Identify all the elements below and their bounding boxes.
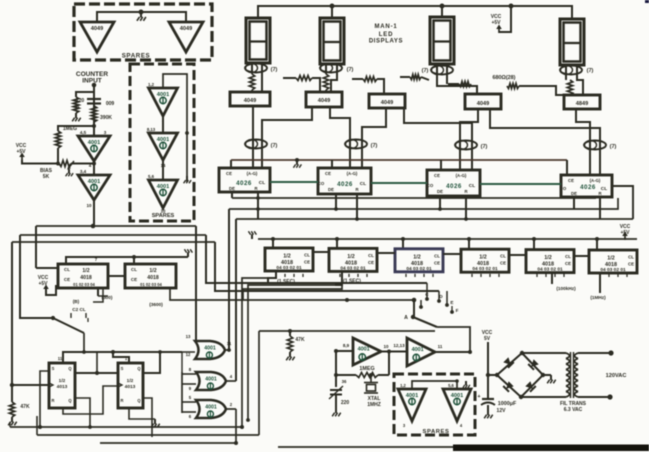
wire bus left verticals [12, 226, 53, 385]
wire VCC top bus [258, 6, 572, 19]
label 120VAC [606, 373, 627, 379]
svg-text:MAN-1: MAN-1 [375, 24, 398, 30]
svg-text:01 02 03 04: 01 02 03 04 [73, 282, 95, 287]
pin 4 label [89, 163, 92, 168]
display DS1 MAN-1 [246, 18, 270, 63]
wire tap routing 3 [243, 285, 342, 300]
junction osc fb [334, 349, 338, 377]
svg-text:R: R [121, 398, 124, 403]
terminal top [608, 350, 613, 355]
wire seg r5 [519, 86, 564, 95]
svg-text:CE: CE [434, 173, 440, 178]
resistor 1MEG osc [356, 373, 378, 378]
label VCC 5V (psu) [482, 330, 493, 342]
svg-text:47K: 47K [20, 404, 30, 410]
divider 4018 #4 [461, 249, 509, 272]
svg-text:CL: CL [434, 253, 440, 258]
pin 4,5 label [80, 130, 87, 135]
wire 4026 3-4 CL link [480, 183, 561, 185]
svg-text:(A-G): (A-G) [247, 171, 258, 176]
svg-text:CL: CL [601, 186, 607, 192]
svg-text:1/2: 1/2 [347, 254, 355, 260]
junction top bus a [330, 4, 335, 9]
svg-text:4001: 4001 [412, 347, 424, 353]
wire 4049C to bundle2 [362, 108, 386, 168]
svg-text:LED: LED [379, 32, 393, 38]
svg-text:DE: DE [229, 186, 235, 191]
wire psu to bridge [488, 374, 497, 376]
wire left4018 left pin [36, 267, 58, 269]
wire U1a to U1b [93, 161, 95, 175]
svg-text:(7): (7) [271, 143, 278, 149]
gate 4001 U1b [78, 175, 110, 200]
wire center vert c [215, 242, 439, 291]
svg-text:(7): (7) [481, 144, 488, 150]
gate 4001 spare D [149, 133, 178, 160]
wire 4013 top feeds [63, 352, 182, 363]
wire left4018 top bus [66, 257, 188, 264]
svg-text:CE: CE [434, 260, 440, 265]
junction top bus c [509, 4, 514, 9]
wire 4018 links [313, 252, 589, 256]
svg-text:10: 10 [383, 344, 389, 349]
wire gate2 inputs [182, 374, 196, 384]
label .009 [106, 101, 115, 107]
wire osc link [381, 351, 407, 353]
svg-text:(A-G): (A-G) [590, 178, 601, 183]
svg-text:4049: 4049 [244, 98, 256, 104]
svg-text:S: S [52, 366, 55, 371]
pin 8 label [189, 367, 192, 372]
resistor seg r1 [296, 76, 312, 81]
wire bias to gate node [71, 163, 94, 165]
flipflop 4013 B [118, 363, 143, 408]
svg-text:009: 009 [106, 101, 115, 107]
svg-text:DE: DE [571, 191, 577, 196]
junction bridge corners [495, 351, 545, 399]
label (7) DS2 [347, 67, 354, 73]
junction ffA D [38, 425, 42, 429]
svg-text:1/2: 1/2 [413, 254, 421, 260]
wire 4049A down [253, 106, 312, 168]
svg-text:CL: CL [259, 180, 265, 186]
resistor 47K left [9, 402, 14, 417]
wire bridge to xfmr top [522, 352, 566, 354]
svg-text:120VAC: 120VAC [606, 373, 627, 379]
junction ffB right [158, 350, 162, 354]
wire 4018 top bus [258, 238, 637, 240]
svg-text:(3600): (3600) [149, 302, 163, 307]
label SPARES (bottom) [422, 429, 449, 435]
wire spare D out [162, 160, 164, 180]
ground (ff) [151, 419, 160, 427]
label (7) c2 [371, 143, 378, 149]
svg-text:CO: CO [318, 181, 325, 186]
wire 4049B down [330, 107, 350, 168]
divider 4018 #3 [395, 249, 443, 272]
wire left4018 link [108, 275, 125, 277]
driver 4049 D [465, 94, 501, 109]
svg-text:CL: CL [469, 183, 475, 189]
wire VCC to bias [19, 153, 59, 164]
svg-text:CE: CE [64, 277, 70, 282]
pin 8,9 label [343, 343, 350, 348]
svg-text:4049: 4049 [477, 101, 489, 107]
wire seg r3 [400, 77, 429, 80]
pin 1,2 label [148, 82, 155, 87]
wire 47K left [12, 384, 49, 386]
wire gate fb rail [181, 352, 183, 372]
wire bottom bus 3 [100, 442, 236, 444]
wire bus r2 [229, 198, 618, 209]
wire U2a out [225, 349, 229, 351]
label 47K (left) [20, 404, 30, 410]
wire spare C out [162, 116, 164, 133]
resistor seg r5 [507, 84, 519, 89]
divider 4018 #1 [265, 248, 313, 271]
pin 3 label (spare C) [162, 118, 165, 123]
junction osc link [387, 350, 391, 354]
capacitor trimmer 220 [329, 386, 343, 399]
junction bus dots [334, 207, 468, 221]
svg-text:6.3 VAC: 6.3 VAC [564, 407, 583, 413]
svg-text:4026: 4026 [446, 183, 462, 190]
pin 8,13 label [147, 127, 156, 132]
dashed spares box (top-left) [74, 4, 212, 60]
wire cap down [487, 405, 489, 410]
wire ff cross 2 [143, 398, 152, 437]
svg-text:01 02 03 04: 01 02 03 04 [140, 282, 162, 287]
wire bus l3 [12, 241, 215, 243]
svg-text:04 03 02 01: 04 03 02 01 [472, 266, 498, 272]
ground (120K) [72, 113, 81, 121]
svg-text:4018: 4018 [80, 275, 92, 281]
svg-text:1/2: 1/2 [127, 378, 134, 384]
svg-text:12V: 12V [497, 408, 507, 414]
wire left4018 bottom misc [88, 296, 108, 322]
svg-text:S: S [121, 366, 124, 371]
wire tap routing 2 [248, 285, 335, 420]
switch arm B [51, 316, 84, 333]
wire DS1 pins down [252, 63, 262, 92]
junction bottom spares [455, 379, 459, 383]
pin 6 label [189, 414, 192, 419]
wire osc input [336, 350, 353, 352]
resistor 120K [73, 97, 78, 113]
svg-text:F: F [456, 308, 459, 313]
svg-text:390K: 390K [100, 115, 112, 121]
wire VCC psu down [487, 342, 489, 398]
crystal XTAL [364, 375, 378, 393]
ground (bias) [66, 169, 74, 176]
gate 4001 U2c [196, 400, 226, 418]
wire gate1 inputs [160, 341, 196, 352]
label 390K [100, 115, 112, 121]
svg-text:8,9: 8,9 [343, 343, 350, 348]
wire DS2 pins down [326, 64, 337, 92]
resistor 390K [91, 106, 96, 122]
svg-text:13: 13 [186, 334, 191, 339]
wire tap routing 1 [242, 278, 276, 427]
svg-text:CL: CL [368, 253, 374, 258]
wire 4049D down [460, 109, 478, 170]
wire xfmr secondary top [578, 352, 611, 354]
svg-text:680Ω(28): 680Ω(28) [493, 75, 516, 81]
label (B) [73, 299, 80, 304]
svg-text:4001: 4001 [358, 347, 370, 353]
svg-text:1000μF: 1000μF [498, 401, 517, 407]
svg-text:DE: DE [328, 187, 334, 192]
wire DS3 to drivers [437, 80, 477, 94]
pin 5,6 label [148, 174, 155, 179]
label (7) DS4 [587, 68, 594, 74]
svg-text:220: 220 [341, 400, 350, 406]
svg-text:04 03 02 01: 04 03 02 01 [276, 265, 302, 271]
switch contact D [437, 294, 443, 303]
divider 4018 #8 [125, 264, 176, 288]
wire center vert b [206, 235, 427, 283]
svg-text:CE: CE [226, 171, 232, 176]
gate 4001 spare F [398, 389, 426, 421]
wire bridge gnd [543, 374, 551, 376]
pin 4 label (U2b) [230, 374, 233, 379]
scan artifact bar [453, 445, 649, 452]
junction switch feed [412, 298, 417, 303]
wire center vert d [229, 209, 236, 381]
pin 11 label (U2a) [227, 341, 232, 346]
pin 10 label (osc) [383, 344, 389, 349]
wire 4026-4 CL out [612, 186, 633, 219]
svg-text:SPARES: SPARES [152, 213, 175, 219]
svg-text:1,2: 1,2 [400, 383, 406, 388]
pin7 label [95, 257, 98, 262]
label 1MEG [63, 126, 77, 132]
svg-text:10: 10 [86, 203, 92, 208]
diode D3 [525, 381, 536, 392]
svg-text:CE: CE [500, 261, 506, 266]
svg-text:04 03 02 01: 04 03 02 01 [340, 265, 366, 271]
svg-text:CE: CE [304, 260, 310, 265]
wire B taps [71, 313, 86, 318]
svg-text:CL: CL [304, 253, 310, 258]
svg-text:4026: 4026 [337, 181, 353, 188]
divider 4018 #7 [58, 264, 108, 288]
flipflop 4013 A [49, 363, 75, 408]
junction bias node [56, 162, 60, 166]
wire bottom edge line [278, 446, 649, 448]
pin 4 label (bspare) [460, 423, 463, 428]
diode D2 [528, 359, 539, 370]
label (7) DS1 [271, 67, 278, 73]
resistor seg r4 [459, 82, 471, 87]
driver 4049 E [564, 95, 600, 109]
svg-text:4001: 4001 [205, 405, 217, 411]
svg-text:(7): (7) [610, 144, 617, 150]
pin 5 label [189, 395, 192, 400]
junction osc out [468, 350, 472, 354]
junction 47K [288, 329, 292, 333]
gate 4001 U2b [196, 372, 226, 390]
junction ce bus [295, 158, 299, 162]
wire gate3 inputs [182, 402, 196, 412]
wire display2 up [331, 6, 333, 18]
resistor seg r2 [363, 77, 377, 82]
svg-text:CE: CE [628, 262, 634, 267]
wire 4026-2 DE/R down [336, 194, 357, 219]
wire 4049D to bundle4 [490, 109, 600, 175]
gate 4001 spare G [443, 389, 471, 421]
bundle (7) DS3 [431, 66, 453, 75]
label (1 SEC) a [277, 279, 295, 285]
svg-text:5,6: 5,6 [148, 174, 155, 179]
bundle (7) DS1 [245, 64, 267, 73]
svg-text:(7): (7) [422, 68, 429, 74]
wire ffA D feedback [40, 371, 49, 427]
bundle (7) into 4026-2 [345, 140, 367, 149]
wire U2b out [226, 380, 236, 382]
label SPARES (mid box) [152, 213, 175, 219]
vcc arrow right mid [622, 232, 628, 241]
svg-text:SPARES: SPARES [422, 429, 449, 435]
wire bus l2 [20, 234, 206, 236]
svg-text:R: R [52, 398, 55, 403]
svg-text:(7): (7) [587, 68, 594, 74]
svg-text:1MHZ: 1MHZ [367, 402, 381, 408]
svg-text:INPUT: INPUT [82, 78, 102, 85]
wire 4026 CE bus [231, 160, 567, 175]
svg-text:CL: CL [565, 254, 571, 259]
label VCC +5V (left) [16, 143, 27, 155]
label 120K [76, 98, 85, 110]
divider 4018 #5 [526, 250, 574, 273]
svg-text:5V: 5V [484, 336, 491, 342]
pin 3 label [104, 130, 107, 135]
dashed spares box (3x 4001) [130, 64, 194, 221]
wire ffB right [143, 352, 160, 373]
ground (osc) [332, 408, 341, 416]
wire switch arm out [437, 327, 470, 352]
svg-text:5,6: 5,6 [448, 383, 454, 388]
wire 3600 line [170, 288, 414, 300]
svg-text:CE: CE [565, 261, 571, 266]
svg-text:4049: 4049 [180, 26, 192, 32]
svg-text:04 03 02 01: 04 03 02 01 [537, 267, 563, 273]
svg-text:36: 36 [342, 379, 347, 384]
svg-text:CL: CL [500, 254, 506, 259]
inverter 4049 spare B [169, 22, 203, 52]
diode D4 [503, 381, 514, 392]
wire seg r4 [448, 83, 459, 85]
ground (47K center) [286, 352, 295, 360]
svg-text:(100kHz): (100kHz) [556, 286, 576, 291]
ground (47K left) [8, 417, 17, 425]
bundle (7) into 4026-4 [584, 141, 606, 150]
svg-text:1/2: 1/2 [479, 255, 487, 261]
svg-text:04 03 02 01: 04 03 02 01 [406, 266, 432, 272]
svg-text:CL: CL [360, 181, 366, 187]
wire bus to 47K [259, 331, 435, 435]
svg-text:4849: 4849 [576, 101, 588, 107]
ground (spares mid) [184, 176, 192, 183]
wire ffB bottom [129, 408, 155, 419]
svg-text:C2 CL: C2 CL [72, 307, 86, 312]
junction bias-gate [92, 162, 96, 166]
svg-text:4018: 4018 [147, 275, 159, 281]
wire counter input down [93, 85, 95, 135]
svg-text:4026: 4026 [236, 180, 252, 187]
label VCC +5V (left4018) [38, 275, 49, 287]
switch contact E [445, 300, 453, 307]
label COUNTER INPUT [76, 71, 108, 85]
pin 12 label [186, 352, 191, 357]
bundle (7) into 4026-1 [245, 140, 267, 149]
wire contact F up [451, 306, 453, 312]
junction 4026-1 drops [256, 196, 260, 211]
gate 4001 U3b [407, 338, 435, 366]
inverter 4049 spare A [80, 22, 114, 52]
wire seg r1 [283, 78, 320, 92]
counter 4026 #1 [219, 168, 270, 192]
pin 3 label (bspare) [403, 423, 406, 428]
svg-text:K: K [76, 104, 80, 110]
resistor DS2 segment [323, 74, 328, 90]
svg-text:(1MHz): (1MHz) [590, 295, 606, 300]
svg-text:4049: 4049 [91, 26, 103, 32]
display DS4 MAN-1 [560, 19, 584, 65]
wiper arrow bias [67, 161, 74, 170]
svg-text:A: A [404, 315, 408, 321]
wire ff cross 1 [75, 398, 90, 427]
svg-text:+: + [477, 394, 480, 400]
svg-text:4026: 4026 [580, 184, 596, 191]
svg-text:CO: CO [560, 186, 567, 191]
wire bus r3 [236, 218, 633, 220]
svg-text:4,5: 4,5 [80, 130, 87, 135]
wire trimmer down [335, 395, 337, 409]
svg-text:1/2: 1/2 [544, 255, 552, 261]
terminal bottom [607, 394, 612, 399]
label (300) [102, 295, 113, 300]
wire arm B down [83, 333, 85, 352]
wire to 120K [76, 92, 94, 97]
bundle (7) DS4 [560, 66, 582, 75]
svg-text:CE: CE [325, 171, 331, 176]
wire ffA bottom [63, 386, 118, 414]
label FIL TRANS 6.3 VAC [560, 401, 587, 413]
svg-text:(1 SEC): (1 SEC) [343, 279, 361, 285]
pin 2 label (U2c) [230, 402, 233, 407]
svg-text:4001: 4001 [205, 377, 217, 383]
wire gate input rail [181, 372, 183, 413]
divider 4018 #6 [589, 250, 637, 273]
junction 1meg [92, 124, 96, 128]
label SPARES (top box) [122, 53, 151, 60]
wire U2c out [226, 409, 236, 443]
wire osc out [435, 351, 470, 353]
dashed spares box (bottom) [394, 374, 475, 435]
switch arm A [404, 315, 437, 327]
driver 4049 B [306, 92, 342, 107]
svg-text:04 03 02 01: 04 03 02 01 [600, 267, 626, 273]
junction left4018 [132, 255, 136, 259]
wire bottom bus 1 [10, 426, 242, 428]
ground (cap) [484, 410, 493, 418]
diode D1 [503, 357, 514, 368]
pin 1 label [125, 356, 128, 361]
wire bridge to xfmr bottom [521, 396, 566, 398]
wire contact E up [446, 291, 448, 305]
wire 1MEG to bias node [57, 148, 59, 164]
